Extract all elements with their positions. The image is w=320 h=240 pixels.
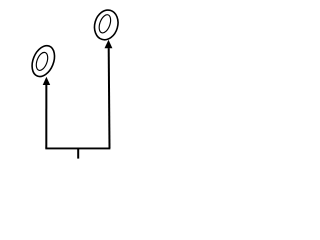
node A inner ellipse: [34, 51, 50, 72]
arrowhead into node A: [43, 77, 51, 85]
wire: left vertical line: [45, 85, 47, 149]
wire: right vertical line: [108, 48, 111, 148]
node B outer ellipse (right double-oval): [91, 7, 121, 42]
wire: center stem below bracket: [77, 148, 79, 158]
arrowhead into node B: [105, 40, 113, 49]
node A outer ellipse (left double-oval): [28, 42, 59, 79]
node B inner ellipse: [97, 13, 113, 34]
wire: bottom horizontal bracket: [45, 147, 110, 149]
